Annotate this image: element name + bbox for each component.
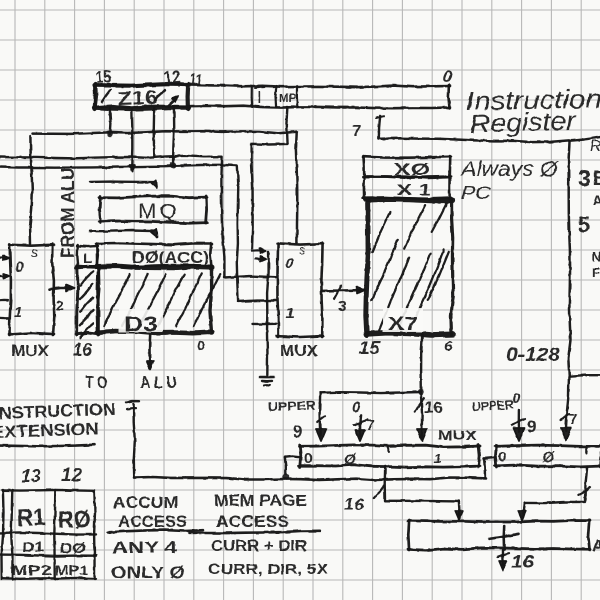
svg-text:0: 0 <box>197 337 205 353</box>
svg-text:PC: PC <box>461 183 492 203</box>
svg-text:FROM ALU: FROM ALU <box>58 168 78 258</box>
svg-text:0: 0 <box>304 450 312 467</box>
svg-text:XØ: XØ <box>394 160 430 179</box>
svg-text:ACCESS: ACCESS <box>216 513 289 531</box>
svg-text:6: 6 <box>444 338 453 355</box>
svg-text:Ø: Ø <box>542 449 555 466</box>
svg-text:MP1: MP1 <box>55 562 88 578</box>
svg-text:CURR, DIR, 5X: CURR, DIR, 5X <box>208 562 328 578</box>
svg-text:Always Ø: Always Ø <box>459 158 560 181</box>
svg-text:16: 16 <box>511 552 535 572</box>
svg-text:X 1: X 1 <box>397 182 431 199</box>
svg-text:13: 13 <box>21 465 42 486</box>
svg-text:R: R <box>590 138 600 155</box>
svg-text:0: 0 <box>15 259 24 276</box>
svg-text:11: 11 <box>188 71 203 90</box>
svg-text:1: 1 <box>286 305 294 322</box>
svg-text:Z16: Z16 <box>117 88 158 110</box>
svg-text:UPPER: UPPER <box>471 398 514 414</box>
svg-text:7: 7 <box>569 411 577 428</box>
svg-text:RØ: RØ <box>57 506 91 534</box>
svg-text:TO: TO <box>85 373 111 392</box>
svg-text:15: 15 <box>359 338 381 358</box>
svg-text:12: 12 <box>163 67 181 88</box>
svg-text:0: 0 <box>512 390 521 407</box>
svg-text:ANY 4: ANY 4 <box>112 538 178 557</box>
svg-text:MP2: MP2 <box>11 562 52 578</box>
svg-text:12: 12 <box>61 464 83 485</box>
svg-text:7: 7 <box>366 417 374 434</box>
svg-text:ALU: ALU <box>140 373 180 392</box>
svg-text:MEM PAGE: MEM PAGE <box>214 492 307 510</box>
svg-text:EXTENSION: EXTENSION <box>0 419 99 442</box>
svg-text:A: A <box>592 538 600 555</box>
svg-text:16: 16 <box>73 340 93 360</box>
svg-text:16: 16 <box>344 495 365 514</box>
svg-text:7: 7 <box>352 123 361 140</box>
svg-text:MP: MP <box>279 91 296 105</box>
svg-text:5: 5 <box>578 212 590 237</box>
svg-text:L: L <box>83 250 92 267</box>
svg-text:0-128: 0-128 <box>506 345 560 366</box>
svg-text:MUX: MUX <box>11 343 50 360</box>
svg-text:9: 9 <box>527 417 536 436</box>
svg-text:0: 0 <box>285 255 294 272</box>
svg-text:s: s <box>299 242 306 257</box>
svg-text:R1: R1 <box>16 504 46 532</box>
svg-text:ACCUM: ACCUM <box>113 494 178 512</box>
svg-text:ONLY Ø: ONLY Ø <box>111 563 185 582</box>
svg-text:N: N <box>592 249 600 264</box>
svg-text:0: 0 <box>352 399 361 416</box>
svg-text:UPPER: UPPER <box>268 398 316 414</box>
svg-text:3: 3 <box>338 298 346 315</box>
svg-text:B: B <box>593 168 600 190</box>
svg-text:16: 16 <box>424 398 443 417</box>
svg-text:15: 15 <box>95 67 112 87</box>
svg-text:A: A <box>593 193 600 208</box>
svg-text:1: 1 <box>434 451 441 466</box>
svg-text:F: F <box>592 265 600 280</box>
svg-text:D1: D1 <box>22 539 44 556</box>
svg-text:CURR + DIR: CURR + DIR <box>211 538 307 555</box>
svg-text:Ø: Ø <box>344 451 357 468</box>
svg-text:X7: X7 <box>388 314 418 334</box>
svg-text:9: 9 <box>293 422 302 441</box>
svg-text:D3: D3 <box>124 313 158 336</box>
svg-text:MUX: MUX <box>280 343 319 360</box>
svg-text:s: s <box>31 244 38 260</box>
svg-text:I: I <box>257 88 262 107</box>
svg-text:2: 2 <box>56 297 64 313</box>
svg-text:Register: Register <box>469 105 577 139</box>
svg-text:1: 1 <box>14 304 22 321</box>
svg-text:0: 0 <box>498 449 506 466</box>
svg-text:MUX: MUX <box>438 427 478 443</box>
svg-text:DØ: DØ <box>60 540 86 557</box>
svg-text:MQ: MQ <box>138 200 180 223</box>
svg-text:ACCESS: ACCESS <box>118 513 187 531</box>
svg-text:3: 3 <box>578 165 591 191</box>
